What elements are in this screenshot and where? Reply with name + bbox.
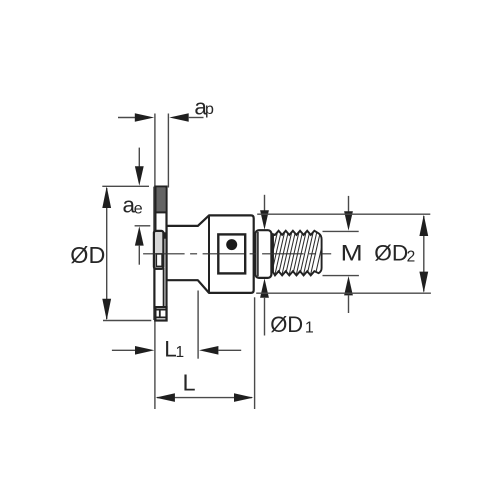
extension line right of blade (ap) bbox=[167, 114, 169, 188]
clamp screw window bbox=[218, 234, 245, 273]
dimension ØD1 lower arrow tail bbox=[264, 297, 266, 336]
dimension L1 tail left bbox=[112, 349, 136, 351]
centerline (dash-dot axis) bbox=[138, 253, 332, 255]
extension line thread bottom (M) bbox=[323, 275, 359, 277]
extension line body end (L) bbox=[254, 297, 256, 409]
washer notch bbox=[163, 232, 166, 238]
arbor body outline (neck, taper, cylinder) bbox=[167, 215, 254, 293]
dimension ae lower arrow tail bbox=[138, 245, 140, 265]
extension line thread top (M) bbox=[323, 230, 359, 232]
hub sleeve below washer bbox=[155, 269, 164, 308]
washer window bbox=[156, 254, 162, 267]
extension line neck end (L1) bbox=[197, 291, 199, 359]
dimension ØD2 arrow up bbox=[419, 215, 428, 236]
label ae bbox=[123, 193, 143, 218]
saw blade (side view) bbox=[155, 187, 166, 321]
dimension ØD1 upper arrow tail bbox=[264, 195, 266, 212]
dimension M upper arrow tail bbox=[348, 196, 350, 213]
svg-text:1: 1 bbox=[305, 320, 314, 337]
extension line body top (ØD2) bbox=[257, 213, 430, 215]
svg-text:e: e bbox=[134, 201, 143, 218]
blade tooth top (carbide, sectioned) bbox=[157, 188, 166, 212]
dimension M upper arrow bbox=[344, 211, 353, 230]
blade tooth bottom (sectioned) bbox=[155, 307, 166, 320]
extension line left of blade face (shared by ap, L1 and L) bbox=[154, 114, 156, 410]
dimension ØD1 lower arrow bbox=[260, 278, 269, 297]
label ØD2 bbox=[374, 240, 415, 265]
dimension ØD1 upper arrow bbox=[260, 210, 269, 229]
svg-text:1: 1 bbox=[176, 344, 185, 361]
dimension ØD2 line bbox=[423, 216, 425, 292]
dimension ap tail right bbox=[188, 117, 204, 119]
dimension ap arrow right bbox=[169, 113, 188, 122]
label ØD1 bbox=[270, 312, 314, 337]
dimension ØD arrow up bbox=[102, 186, 111, 208]
svg-text:ØD: ØD bbox=[70, 242, 105, 268]
thread helix hatching bbox=[264, 230, 323, 276]
collar bbox=[255, 230, 271, 278]
dimension L1 arrow right bbox=[199, 346, 218, 355]
svg-text:ØD: ØD bbox=[270, 312, 303, 337]
dimension ØD line bbox=[106, 188, 108, 319]
dimension ae upper arrow bbox=[135, 166, 144, 185]
extension line neck top (ae) bbox=[135, 225, 151, 227]
collar face line bbox=[257, 232, 259, 276]
label L1 bbox=[164, 337, 184, 362]
taper-body junction line bbox=[208, 216, 210, 293]
dimension L arrow right bbox=[234, 393, 253, 402]
extension line blade top (ae/ØD) bbox=[102, 185, 149, 187]
svg-text:ØD: ØD bbox=[374, 240, 408, 265]
clamping washer bbox=[154, 231, 164, 269]
dimension M lower arrow tail bbox=[348, 295, 350, 313]
thread crest outline bbox=[273, 231, 322, 276]
dimension ap arrow left bbox=[135, 113, 154, 122]
dimension ae lower arrow bbox=[135, 226, 144, 245]
dimension ØD arrow down bbox=[102, 299, 111, 321]
clamp screw dot bbox=[226, 239, 237, 250]
svg-text:2: 2 bbox=[407, 248, 416, 265]
extension line sliver along blade left side bbox=[153, 187, 155, 320]
svg-text:M: M bbox=[341, 240, 363, 265]
dimension L arrow left bbox=[156, 393, 175, 402]
dimension M lower arrow bbox=[344, 276, 353, 295]
label ap bbox=[194, 94, 214, 119]
svg-text:L: L bbox=[183, 369, 196, 395]
dimension L1 tail right bbox=[218, 349, 241, 351]
dimension ae upper arrow tail bbox=[138, 148, 140, 167]
dimension ap tail left bbox=[118, 117, 136, 119]
thread fill bbox=[273, 231, 322, 276]
dimension L line bbox=[157, 397, 252, 399]
blade tooth top base line bbox=[156, 211, 167, 213]
dimension ØD2 arrow down bbox=[419, 272, 428, 293]
extension line body bottom (ØD2) bbox=[256, 292, 431, 294]
dimension L1 arrow left bbox=[135, 346, 154, 355]
svg-text:p: p bbox=[205, 101, 214, 118]
extension line blade bottom (ØD) bbox=[103, 320, 151, 322]
